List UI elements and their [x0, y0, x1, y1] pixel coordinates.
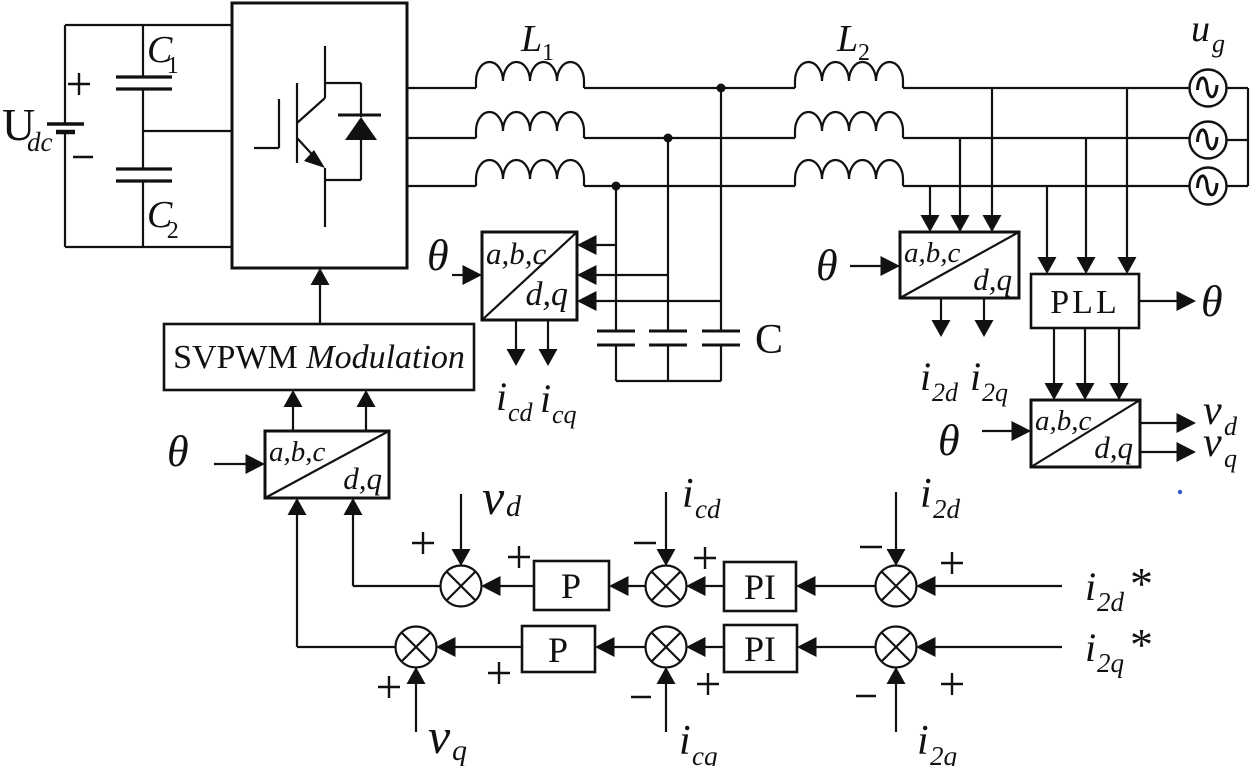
- svg-text:i: i: [682, 471, 694, 517]
- stray blue dot: [1178, 490, 1182, 494]
- svg-text:2d: 2d: [933, 494, 961, 524]
- arrow icq in: [665, 682, 667, 732]
- svg-text:g: g: [1212, 29, 1225, 58]
- arrow theta out: [1139, 300, 1180, 302]
- inductor L1 phase C: [476, 160, 584, 186]
- plus sign S2 right: [694, 557, 716, 559]
- plus sign S1 left: [412, 542, 434, 544]
- wire phase B: [407, 137, 476, 139]
- IGBT Q1 emitter: [297, 138, 320, 163]
- svg-text:q: q: [452, 734, 467, 766]
- PI block row1: [724, 562, 796, 611]
- PI block row2: [724, 625, 797, 672]
- filter capacitor Cc: [597, 330, 635, 333]
- svg-text:θ: θ: [938, 416, 960, 465]
- wire i2q ref: [932, 646, 1062, 648]
- svg-text:a,b,c: a,b,c: [269, 436, 326, 468]
- grid source phase C: [1190, 168, 1227, 205]
- svg-text:θ: θ: [427, 231, 449, 280]
- wire i2b tap: [959, 138, 961, 216]
- svg-text:*: *: [1130, 558, 1153, 609]
- IGBT Q1 collector: [324, 46, 326, 98]
- svg-text:SVPWM Modulation: SVPWM Modulation: [173, 339, 465, 376]
- arrow i2d in: [895, 492, 897, 551]
- svg-text:i: i: [917, 718, 929, 764]
- wire cap branch A: [720, 88, 722, 331]
- abc-dq transform U4: [1031, 400, 1140, 467]
- svg-text:cq: cq: [692, 741, 717, 766]
- arrow i2q out: [983, 298, 985, 323]
- svg-text:PI: PI: [744, 629, 776, 669]
- arrow vd in: [460, 494, 462, 551]
- wire uc tap: [1046, 186, 1048, 258]
- wire row2 to U2: [297, 646, 396, 648]
- SVPWM Modulation block: [164, 324, 474, 390]
- battery Udc: [64, 25, 66, 124]
- svg-text:L: L: [520, 18, 542, 60]
- inverter box: [232, 3, 407, 268]
- arrow S3 to PI1: [812, 585, 876, 587]
- svg-text:d,q: d,q: [1094, 430, 1133, 465]
- svg-text:2q: 2q: [1097, 648, 1124, 678]
- arrow icq out: [547, 320, 549, 352]
- svg-text:a,b,c: a,b,c: [1035, 405, 1092, 437]
- wire phase A: [407, 87, 476, 89]
- arrow theta U1: [452, 274, 468, 276]
- plus sign S3 right: [941, 562, 963, 564]
- svg-text:2d: 2d: [932, 378, 959, 407]
- wire bottom dc bus: [65, 246, 232, 248]
- svg-text:cq: cq: [552, 400, 577, 429]
- P block row2: [522, 626, 595, 672]
- arrow PI1 to S2: [702, 585, 724, 587]
- svg-text:d,q: d,q: [526, 276, 569, 313]
- filter capacitor Cb: [649, 330, 687, 333]
- svg-text:i: i: [540, 376, 551, 421]
- svg-text:v: v: [482, 469, 505, 525]
- filter capacitor Ca: [702, 330, 740, 333]
- arrow PLL va: [1053, 328, 1055, 384]
- wire row1 to U2: [353, 585, 441, 587]
- svg-text:d,q: d,q: [343, 461, 382, 496]
- arrow i2d out: [940, 298, 942, 323]
- plus sign S6 right: [941, 683, 963, 685]
- wire grid right bus: [1227, 87, 1249, 89]
- abc-dq transform U3: [900, 232, 1019, 298]
- inductor L1 phase A: [476, 62, 584, 88]
- svg-text:v: v: [428, 708, 451, 764]
- PLL block: [1031, 274, 1139, 328]
- svg-text:i: i: [679, 718, 691, 764]
- svg-text:θ: θ: [1201, 277, 1223, 326]
- minus sign S5: [631, 696, 651, 698]
- P block row1: [534, 561, 609, 610]
- svg-text:i: i: [1085, 625, 1096, 670]
- capacitor C1: [116, 75, 172, 78]
- wire dc midpoint: [143, 130, 232, 132]
- plus sign S4 right: [488, 672, 510, 674]
- arrow PLL vb: [1084, 328, 1086, 384]
- wire cap common bus: [616, 380, 721, 382]
- wire capacitor branch: [142, 25, 144, 77]
- arrow SVPWM to inverter: [319, 283, 321, 324]
- arrow PI2 to S5: [702, 646, 724, 648]
- svg-text:i: i: [1085, 564, 1096, 609]
- plus sign S5 right: [697, 683, 719, 685]
- svg-text:d: d: [506, 490, 522, 523]
- svg-text:2: 2: [167, 218, 179, 244]
- arrow S2 to P1: [625, 585, 646, 587]
- wire i2a tap: [991, 88, 993, 216]
- plus sign S4 left: [378, 686, 400, 688]
- wire cap branch B: [667, 138, 669, 331]
- svg-text:i: i: [496, 374, 507, 419]
- wire ub tap: [1085, 138, 1087, 258]
- summing junction S2: [646, 566, 687, 607]
- svg-text:2: 2: [858, 40, 870, 66]
- summing junction S5: [646, 627, 687, 668]
- svg-text:*: *: [1130, 619, 1153, 670]
- arrow vq out: [1140, 451, 1180, 453]
- summing junction S1: [441, 566, 482, 607]
- freewheeling diode D1: [325, 82, 361, 84]
- summing junction S4: [396, 627, 437, 668]
- battery minus sign: [73, 156, 93, 158]
- inductor L2 phase A: [795, 62, 903, 88]
- inductor L2 phase B: [795, 112, 903, 138]
- svg-text:θ: θ: [816, 241, 838, 290]
- svg-text:θ: θ: [167, 427, 189, 476]
- svg-text:dc: dc: [27, 127, 53, 157]
- inductor L1 phase B: [476, 112, 584, 138]
- wire icb sense: [591, 274, 668, 276]
- arrow S5 to P2: [611, 646, 646, 648]
- arrow theta U3: [850, 265, 884, 267]
- wire top dc bus: [65, 24, 232, 26]
- minus sign S3: [860, 546, 882, 548]
- capacitor C2: [116, 167, 172, 170]
- arrow PLL vc: [1118, 328, 1120, 384]
- svg-text:d,q: d,q: [973, 262, 1012, 297]
- svg-text:PI: PI: [744, 567, 776, 607]
- node phase A tap: [717, 84, 726, 93]
- wire phase C: [407, 185, 476, 187]
- abc-dq transform U2: [265, 431, 389, 498]
- arrow icd out: [515, 320, 517, 352]
- IGBT Q1 gate: [254, 147, 279, 149]
- wire ica sense: [591, 244, 616, 246]
- wire cap branch C: [615, 186, 617, 331]
- arrow S6 to PI2: [813, 646, 876, 648]
- svg-text:u: u: [1191, 8, 1210, 50]
- arrow P2 to S4: [452, 646, 522, 648]
- arrow vd out: [1140, 422, 1180, 424]
- wire i2d ref: [932, 585, 1062, 587]
- svg-text:1: 1: [542, 40, 554, 66]
- arrow theta U2: [214, 463, 254, 465]
- arrow theta U4: [982, 430, 1015, 432]
- svg-text:v: v: [1203, 420, 1222, 466]
- svg-text:i: i: [970, 354, 981, 399]
- svg-text:q: q: [1224, 444, 1237, 473]
- svg-text:d: d: [1224, 412, 1238, 441]
- battery plus sign: [68, 83, 90, 85]
- inductor L2 phase C: [795, 160, 903, 186]
- svg-text:C: C: [755, 317, 783, 363]
- svg-text:cd: cd: [508, 398, 534, 427]
- arrow P1 to S1: [497, 585, 534, 587]
- arrow mod d: [292, 405, 294, 431]
- svg-text:cd: cd: [695, 494, 721, 524]
- node phase C tap: [612, 182, 621, 191]
- svg-text:a,b,c: a,b,c: [904, 237, 961, 269]
- svg-text:2q: 2q: [930, 741, 957, 766]
- abc-dq transform U1: [482, 232, 577, 320]
- arrow vq in: [415, 682, 417, 732]
- node phase B tap: [664, 134, 673, 143]
- IGBT Q1 body: [296, 83, 298, 163]
- svg-text:1: 1: [167, 53, 179, 79]
- svg-text:2q: 2q: [982, 378, 1008, 407]
- svg-text:2d: 2d: [1097, 587, 1125, 617]
- summing junction S6: [876, 627, 917, 668]
- grid source phase A: [1190, 70, 1227, 107]
- summing junction S3: [876, 566, 917, 607]
- wire icc sense: [591, 300, 721, 302]
- arrow icd in: [665, 492, 667, 551]
- svg-text:i: i: [920, 471, 932, 517]
- svg-text:PLL: PLL: [1050, 284, 1119, 321]
- minus sign S6: [856, 695, 876, 697]
- wire ua tap: [1126, 88, 1128, 258]
- arrow i2q in: [895, 682, 897, 732]
- svg-text:i: i: [920, 354, 931, 399]
- plus sign S1 right: [508, 556, 530, 558]
- arrow mod q: [365, 405, 367, 431]
- svg-text:P: P: [548, 630, 568, 670]
- grid source phase B: [1190, 122, 1227, 159]
- svg-text:P: P: [561, 566, 581, 606]
- minus sign S2: [634, 542, 656, 544]
- svg-text:a,b,c: a,b,c: [486, 236, 547, 271]
- svg-text:L: L: [836, 18, 858, 60]
- wire i2c tap: [929, 186, 931, 216]
